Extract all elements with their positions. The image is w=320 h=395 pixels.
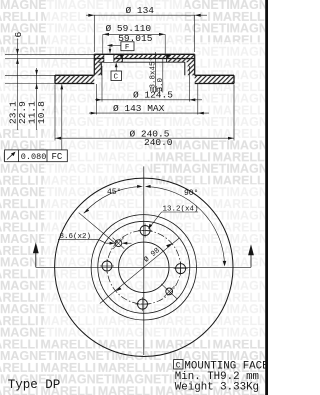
friction band top right: [195, 74, 234, 76]
svg-text:0.080: 0.080: [21, 152, 47, 162]
dim O59 fraction bar: [103, 33, 165, 35]
small hole 1 radial mark: [113, 238, 125, 249]
bolt circle dashed: [107, 230, 181, 304]
chamfer leader 3.0: [162, 59, 164, 93]
dim O124.5 ext right: [188, 66, 190, 102]
dim O134 arrow left: [88, 14, 94, 17]
bolt hole left: [102, 261, 112, 271]
small hole 1 tangent mark: [113, 238, 124, 249]
small hole lower-right: [166, 288, 173, 295]
svg-text:90°: 90°: [184, 189, 198, 198]
friction band bottom ext left: [5, 83, 55, 85]
circle O143: [91, 215, 196, 320]
svg-text:Type DP: Type DP: [8, 378, 61, 392]
hat top surface ext line: [5, 53, 94, 55]
bolt hole wall left: [103, 54, 105, 62]
hat top surface line: [94, 53, 194, 55]
svg-text:Weight 3.33Kg: Weight 3.33Kg: [175, 382, 259, 394]
right page border bar: [265, 0, 268, 395]
small hole upper-left: [115, 240, 122, 247]
bore edge left: [121, 54, 123, 62]
dim O59 arrow right: [159, 33, 165, 36]
hat wall outer right: [194, 54, 196, 75]
small hole 2 tangent mark: [164, 286, 175, 297]
dim O124.5 arrow left: [96, 98, 102, 101]
dim O124.5 ext left: [101, 66, 103, 102]
bolt hole wall right: [113, 54, 115, 62]
chamfer leader 3.8x45: [154, 52, 156, 93]
dim O143 line: [89, 112, 209, 114]
arc45 arrow at end: [84, 208, 89, 213]
svg-text:F: F: [125, 44, 130, 52]
left dim line 6 / 23.1: [17, 39, 19, 131]
bore circle: [119, 242, 169, 292]
bolt hole right: [176, 264, 186, 274]
runout symbol arrow: [7, 153, 14, 160]
svg-text:10.8: 10.8: [36, 101, 47, 124]
datum C frame: [111, 64, 122, 81]
O98 arrow upper: [166, 243, 172, 247]
bolt hole white gap: [104, 55, 113, 62]
bore chamfer right: [167, 54, 172, 58]
section arrow left: [35, 252, 37, 267]
arc90 arrow at top: [145, 185, 151, 188]
svg-text:45°: 45°: [107, 188, 121, 197]
svg-text:C: C: [114, 74, 119, 82]
runout feature control frame: [5, 150, 68, 162]
svg-text:6: 6: [13, 32, 24, 38]
bolt hole bottom crosshair: [142, 297, 144, 311]
disc outer edge right: [233, 75, 235, 83]
svg-text:FC: FC: [52, 152, 63, 162]
arc90 arrow at end: [223, 261, 227, 267]
bolt hole right crosshair: [180, 262, 182, 276]
hat wall hatch right: [188, 62, 195, 75]
bolt hole top crosshair: [144, 224, 146, 238]
dim O143 arrow left: [91, 112, 97, 115]
arc45 arrow at top: [137, 185, 143, 188]
dim O134 arrow right: [195, 14, 201, 17]
friction band top left: [55, 74, 94, 76]
O98 arrow lower: [116, 287, 122, 291]
hat flange lower line (6mm): [94, 58, 194, 60]
dim O134 line: [86, 14, 207, 16]
hat wall hatch left: [94, 62, 101, 75]
dim O59 drop right: [164, 34, 166, 53]
dim O143 arrow right: [198, 112, 204, 115]
angle arc 90: [147, 187, 225, 265]
bolt hole bottom: [138, 299, 148, 309]
hat flange hatch right: [167, 54, 195, 62]
hat flange hatch bore strip: [122, 54, 166, 58]
bolt hole top: [140, 226, 150, 236]
dim O59 arrow left: [103, 33, 109, 36]
svg-text:8.6(x2): 8.6(x2): [60, 233, 92, 241]
dim 11.1 arrow bottom: [35, 84, 38, 89]
dim O240 ext right: [233, 85, 235, 141]
dim 6 arrow top: [16, 49, 19, 54]
hat wall inner left: [100, 62, 102, 75]
datum F arrow down: [109, 49, 112, 54]
svg-text:Ø 143 MAX: Ø 143 MAX: [113, 103, 165, 114]
friction band hatch left: [55, 75, 94, 83]
dim O134 ext right: [194, 15, 196, 52]
bolt hole left crosshair: [106, 259, 108, 273]
runout FC leader: [61, 85, 63, 150]
dim 6 arrow bottom: [16, 59, 19, 64]
angle arc 45: [84, 187, 141, 214]
dim O143 ext left: [96, 84, 98, 115]
O98 diagonal dimension line: [100, 238, 180, 304]
hat flange hatch left: [94, 54, 122, 62]
dim O240 ext left: [54, 85, 56, 141]
svg-text:Ø 124.5: Ø 124.5: [133, 90, 173, 101]
disc outer edge left: [54, 75, 56, 83]
dim O240 arrow right: [228, 137, 234, 140]
mounting face line: [99, 61, 185, 63]
svg-text:Ø 134: Ø 134: [126, 5, 155, 16]
note C box: [174, 360, 183, 369]
runout FC leader arrow: [60, 84, 63, 89]
vertical centerline: [143, 166, 145, 355]
hat wall inner right: [184, 62, 186, 75]
dim O59 drop left: [102, 34, 104, 53]
friction band bottom left: [55, 83, 94, 85]
hat wall outer left: [93, 54, 95, 75]
dim 11.1 line: [36, 68, 38, 130]
bore edge right: [166, 54, 168, 62]
dim 11.1 arrow top: [35, 70, 38, 75]
hat flange lower ext line: [5, 58, 94, 60]
datum F arrow: [107, 44, 113, 47]
friction band hatch right: [195, 75, 234, 83]
datum C arrow: [115, 62, 118, 67]
svg-text:240.0: 240.0: [144, 137, 173, 148]
outer circle: [55, 178, 233, 356]
dim O124.5 arrow right: [189, 98, 195, 101]
dim O143 ext right: [197, 84, 199, 115]
dim O134 ext left: [93, 15, 95, 52]
svg-text:C: C: [176, 361, 181, 370]
dim O240 line: [55, 137, 234, 139]
dim O240 arrow left: [55, 137, 61, 140]
bore chamfer left: [118, 54, 123, 58]
horizontal centerline: [36, 266, 251, 268]
circle O124.5: [98, 221, 190, 313]
friction band top ext left: [5, 74, 55, 76]
section arrow right: [250, 252, 252, 267]
dim O124.5 line: [95, 99, 202, 101]
radial line 140deg: [79, 213, 115, 243]
friction band bottom right: [195, 83, 234, 85]
small hole 2 radial mark: [161, 284, 177, 299]
datum F frame: [110, 42, 134, 52]
